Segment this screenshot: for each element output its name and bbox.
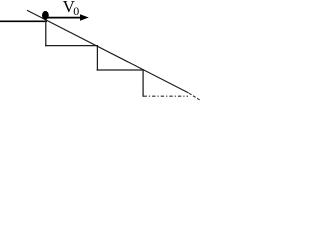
platform line bbox=[0, 20, 47, 22]
step riser 1 bbox=[45, 21, 47, 46]
step riser 3 bbox=[142, 69, 144, 97]
label V0: subscript 0 bbox=[73, 4, 79, 19]
trajectory line dashed tail bbox=[189, 93, 200, 100]
label V0: letter V bbox=[63, 0, 75, 17]
step riser 2 bbox=[96, 45, 98, 71]
velocity arrow shaft bbox=[47, 17, 81, 19]
trajectory line (solid part) bbox=[27, 10, 189, 93]
step tread 2 bbox=[97, 69, 144, 71]
ball bbox=[42, 11, 49, 20]
bottom dash-dot line bbox=[144, 95, 189, 97]
velocity arrow head bbox=[80, 14, 89, 20]
step tread 1 bbox=[45, 45, 98, 47]
